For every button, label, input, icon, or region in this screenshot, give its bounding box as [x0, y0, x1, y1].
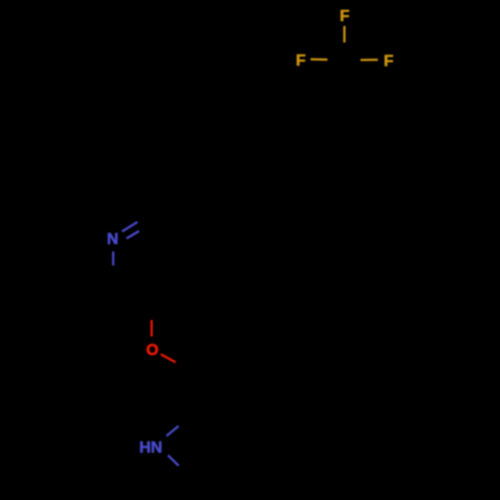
- bond N2-C (half, N side, down-right): [168, 455, 179, 465]
- bond O-CH2 (half, O side): [161, 354, 176, 362]
- svg-text:HN: HN: [139, 439, 162, 456]
- bond N2-C (half, N side, up-right): [167, 426, 179, 436]
- bond C3-O (half, O side): [150, 320, 152, 337]
- bond C-F3 (half, F side): [361, 59, 378, 61]
- bond N1=C2 main line (half, N side): [122, 222, 138, 232]
- svg-text:F: F: [340, 8, 350, 25]
- svg-text:N: N: [107, 231, 119, 248]
- svg-text:F: F: [296, 52, 306, 69]
- bond C-F2 (half, F side): [311, 58, 328, 61]
- bond C-F1 (half, F side): [343, 26, 345, 43]
- svg-text:O: O: [146, 342, 158, 359]
- svg-text:F: F: [384, 53, 394, 70]
- bond N1-C6 (half, N side): [112, 252, 114, 266]
- bond N1=C2 inner double line (half, N side): [127, 231, 140, 239]
